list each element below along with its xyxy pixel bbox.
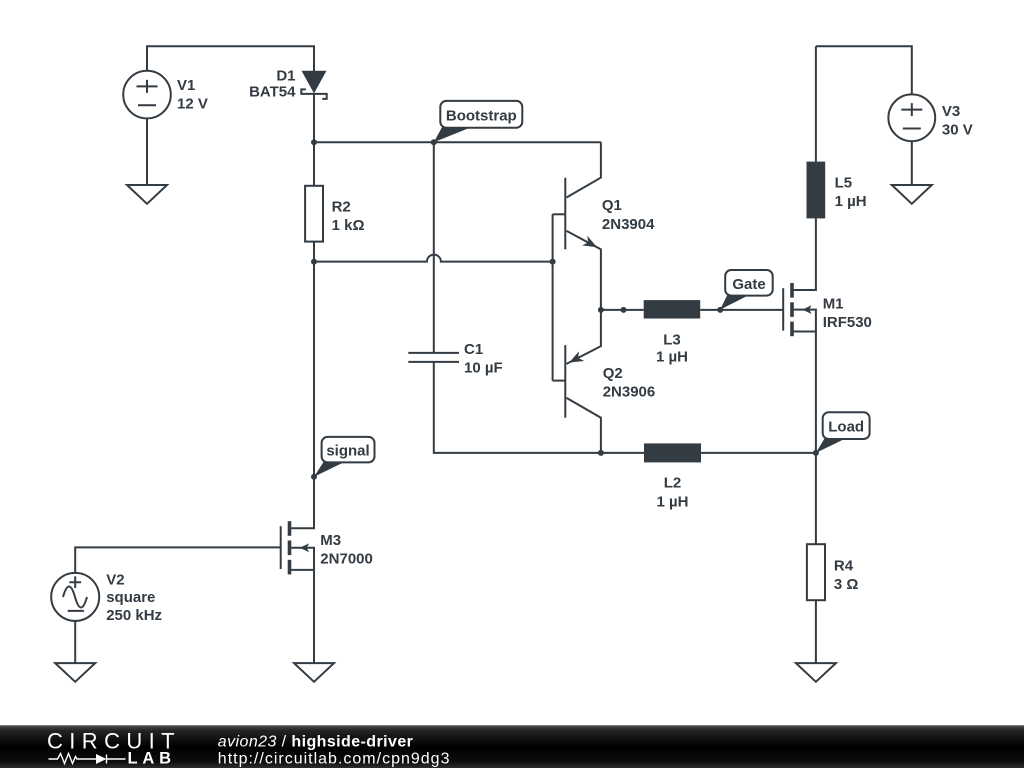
svg-text:12 V: 12 V — [177, 96, 208, 113]
svg-text:1 µH: 1 µH — [835, 193, 867, 210]
svg-text:V3: V3 — [942, 103, 960, 120]
svg-text:V1: V1 — [177, 77, 195, 94]
svg-text:L2: L2 — [664, 475, 682, 492]
svg-text:BAT54: BAT54 — [249, 84, 296, 101]
svg-text:2N7000: 2N7000 — [320, 551, 373, 568]
svg-text:D1: D1 — [276, 67, 295, 84]
svg-text:250 kHz: 250 kHz — [106, 607, 162, 624]
svg-text:Q1: Q1 — [602, 197, 622, 214]
svg-text:M3: M3 — [320, 532, 341, 549]
svg-text:Gate: Gate — [732, 276, 765, 293]
svg-text:Q2: Q2 — [603, 365, 623, 382]
svg-text:signal: signal — [326, 442, 369, 459]
svg-text:2N3906: 2N3906 — [603, 384, 656, 401]
svg-text:10 µF: 10 µF — [464, 360, 503, 377]
svg-text:1 kΩ: 1 kΩ — [332, 217, 365, 234]
svg-text:1 µH: 1 µH — [656, 348, 688, 365]
svg-text:Bootstrap: Bootstrap — [446, 107, 517, 124]
svg-text:R2: R2 — [332, 198, 351, 215]
svg-text:30 V: 30 V — [942, 122, 973, 139]
svg-text:IRF530: IRF530 — [823, 314, 872, 331]
svg-text:2N3904: 2N3904 — [602, 216, 655, 233]
svg-text:LAB: LAB — [128, 749, 176, 767]
svg-text:3 Ω: 3 Ω — [834, 576, 859, 593]
svg-text:Load: Load — [828, 418, 864, 435]
svg-text:R4: R4 — [834, 557, 854, 574]
svg-text:M1: M1 — [823, 296, 844, 313]
svg-text:L3: L3 — [663, 331, 681, 348]
svg-text:1 µH: 1 µH — [657, 493, 689, 510]
svg-text:L5: L5 — [835, 174, 853, 191]
svg-text:C1: C1 — [464, 341, 483, 358]
svg-text:avion23 / highside-driver: avion23 / highside-driver — [218, 733, 413, 750]
svg-text:http://circuitlab.com/cpn9dg3: http://circuitlab.com/cpn9dg3 — [218, 751, 451, 768]
svg-text:V2: V2 — [106, 571, 124, 588]
svg-text:square: square — [106, 589, 155, 606]
